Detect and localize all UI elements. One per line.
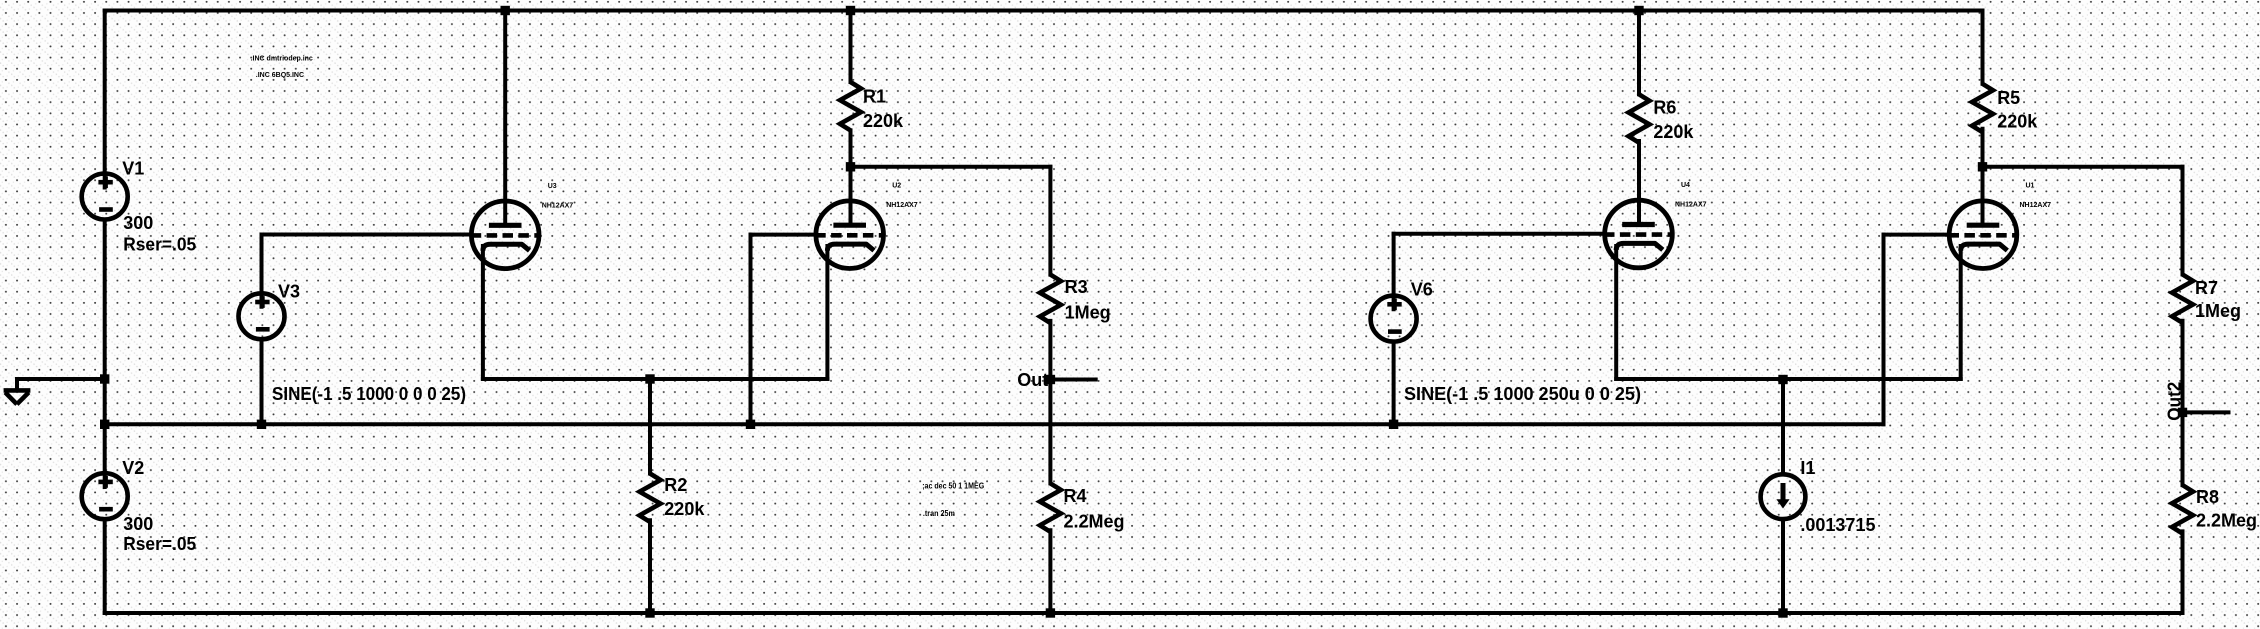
wire U3 cathode leg xyxy=(481,246,485,379)
junction cathodes / R2 xyxy=(645,374,654,383)
svg-text:SINE(-1 .5 1000 250u 0 0 25): SINE(-1 .5 1000 250u 0 0 25) xyxy=(1404,384,1641,404)
wire R4 to ground rail xyxy=(1048,530,1052,613)
svg-text:R4: R4 xyxy=(1064,486,1087,506)
svg-text:V6: V6 xyxy=(1411,280,1433,300)
wire rail to R6 xyxy=(1637,11,1641,95)
svg-text:U4: U4 xyxy=(1681,182,1690,189)
wire R6 to U4 plate xyxy=(1637,141,1641,225)
svg-text:R5: R5 xyxy=(1997,88,2020,108)
junction node Out xyxy=(1046,375,1055,384)
junction top rail / R1 xyxy=(846,6,855,15)
svg-text:NH12AX7: NH12AX7 xyxy=(2020,202,2052,209)
svg-text:220k: 220k xyxy=(863,111,904,131)
junction R1 / U2 plate / R3 xyxy=(846,162,855,171)
svg-text:R2: R2 xyxy=(664,475,687,495)
svg-text:Rser=.05: Rser=.05 xyxy=(123,234,196,254)
svg-text:300: 300 xyxy=(123,514,153,534)
wire V6 to U4 grid xyxy=(1394,232,1605,236)
wire U2 grid entry xyxy=(751,233,817,237)
wire plate node to R7 xyxy=(1983,165,2183,169)
wire U2 grid riser xyxy=(749,235,753,425)
triode U1 NH12AX7 xyxy=(1949,201,2017,269)
value label R7 1Meg xyxy=(2195,278,2241,321)
svg-text:V2: V2 xyxy=(122,458,144,478)
current source I1 xyxy=(1761,474,1806,519)
wire down to R3 xyxy=(1048,167,1052,275)
voltage source V3 xyxy=(239,293,285,339)
svg-text:2.2Meg: 2.2Meg xyxy=(2196,510,2257,530)
tube designator U1 xyxy=(2020,183,2052,210)
wire V3 top lead xyxy=(260,235,264,307)
wire R7 to R8 (Out2 node) xyxy=(2181,321,2185,485)
wire U1 grid entry xyxy=(1884,233,1950,237)
junction node Out2 xyxy=(2178,408,2187,417)
value label R8 2.2Meg xyxy=(2196,487,2257,530)
svg-text:;ac dec 50 1 1MEG: ;ac dec 50 1 1MEG xyxy=(922,481,984,490)
junction bus / left rail xyxy=(100,420,109,429)
wire Out2 stub xyxy=(2183,410,2229,414)
wire U4 cathode leg xyxy=(1614,246,1618,379)
triode U2 NH12AX7 xyxy=(815,201,883,269)
junction cathodes / I1 xyxy=(1778,375,1787,384)
svg-text:NH12AX7: NH12AX7 xyxy=(886,202,918,209)
junction bus / V3 xyxy=(257,420,266,429)
wire bottom ground rail xyxy=(105,611,2183,615)
svg-text:.INC dmtriodep.inc: .INC dmtriodep.inc xyxy=(251,56,313,63)
junction ground stub xyxy=(100,374,109,383)
svg-text:NH12AX7: NH12AX7 xyxy=(1675,202,1707,209)
wire left rail lower (V2 to bottom) xyxy=(103,519,107,613)
junction top rail / R6 xyxy=(1634,6,1643,15)
svg-text:U3: U3 xyxy=(548,183,557,190)
wire V6 top lead xyxy=(1392,234,1396,309)
value label R4 2.2Meg xyxy=(1064,486,1125,532)
resistor R5 xyxy=(1972,84,1993,132)
wire top supply rail xyxy=(105,9,1983,13)
svg-text:220k: 220k xyxy=(664,499,705,519)
wire Out stub xyxy=(1050,378,1095,382)
wire R8 to ground rail xyxy=(2181,531,2185,613)
svg-text:SINE(-1 .5 1000 0 0 0 25): SINE(-1 .5 1000 0 0 0 25) xyxy=(272,384,466,404)
resistor R3 xyxy=(1040,275,1061,323)
resistor R4 xyxy=(1040,483,1061,531)
svg-text:.0013715: .0013715 xyxy=(1800,515,1875,535)
wire down to R7 xyxy=(2181,167,2185,275)
wire rail to R1 xyxy=(849,11,853,83)
svg-text:2.2Meg: 2.2Meg xyxy=(1064,512,1125,532)
resistor R2 xyxy=(640,474,661,522)
value label R5 220k xyxy=(1997,88,2038,132)
svg-text:.tran 25m: .tran 25m xyxy=(923,509,955,518)
wire left rail middle (V1 to V2) xyxy=(103,220,107,488)
svg-text:R1: R1 xyxy=(863,86,886,106)
svg-text:U2: U2 xyxy=(892,183,901,190)
ground xyxy=(4,390,31,404)
svg-text:I1: I1 xyxy=(1800,458,1815,478)
svg-text:1Meg: 1Meg xyxy=(1065,302,1111,322)
wire cathode to I1 xyxy=(1781,380,1785,475)
wire ground drop xyxy=(15,379,19,389)
junction bottom rail / R2 xyxy=(645,608,654,617)
svg-text:.INC 6BQ5.INC: .INC 6BQ5.INC xyxy=(256,72,304,79)
junction bus / V6 xyxy=(1389,420,1398,429)
svg-text:220k: 220k xyxy=(1653,122,1694,142)
resistor R1 xyxy=(840,82,861,130)
wire U1 cathode leg xyxy=(1959,246,1963,379)
tube designator U2 xyxy=(886,183,918,210)
wire cathode rail right xyxy=(1616,377,1961,381)
svg-text:U1: U1 xyxy=(2026,183,2035,190)
value label R1 220k xyxy=(863,86,904,131)
wire I1 to ground rail xyxy=(1781,519,1785,613)
svg-text:300: 300 xyxy=(123,213,153,233)
wire plate node to R3 xyxy=(851,165,1051,169)
junction bottom rail / R4 xyxy=(1046,608,1055,617)
svg-text:V3: V3 xyxy=(278,282,300,302)
value label R6 220k xyxy=(1653,97,1694,142)
wire left rail upper (to V1) xyxy=(103,11,107,188)
resistor R7 xyxy=(2172,274,2193,322)
triode U4 NH12AX7 xyxy=(1604,200,1672,268)
junction bottom rail / I1 xyxy=(1778,608,1787,617)
tube designator U3 xyxy=(542,183,574,210)
triode U3 NH12AX7 xyxy=(471,201,539,269)
svg-text:NH12AX7: NH12AX7 xyxy=(542,202,574,209)
svg-text:Out2: Out2 xyxy=(2165,382,2185,421)
tube designator U4 xyxy=(1675,182,1707,209)
svg-text:Out: Out xyxy=(1017,370,1048,390)
junction R5 / U1 plate / R7 xyxy=(1978,162,1987,171)
wire V3 to U3 grid xyxy=(262,233,472,237)
value label R2 220k xyxy=(664,475,705,519)
wire R1 to U2 plate xyxy=(849,130,853,225)
value label R3 1Meg xyxy=(1065,277,1111,322)
junction bus / U2 grid xyxy=(746,420,755,429)
junction top rail / U3 plate xyxy=(501,6,510,15)
wire rail to R5 xyxy=(1981,11,1985,84)
wire ground stub xyxy=(17,377,105,381)
svg-text:R6: R6 xyxy=(1653,97,1676,117)
wire U1 grid riser xyxy=(1882,235,1886,425)
svg-text:220k: 220k xyxy=(1997,112,2038,132)
voltage source V1 xyxy=(82,174,128,220)
svg-text:R7: R7 xyxy=(2195,278,2218,298)
wire cathode rail left xyxy=(483,377,828,381)
wire V3 bottom lead xyxy=(260,339,264,424)
svg-text:R8: R8 xyxy=(2196,487,2219,507)
wire R2 to ground rail xyxy=(648,520,652,613)
resistor R8 xyxy=(2172,485,2193,533)
wire V6 bottom lead xyxy=(1392,342,1396,425)
wire R3 to R4 (Out node) xyxy=(1048,321,1052,484)
wire cathode to R2 xyxy=(648,379,652,474)
voltage source V2 xyxy=(82,473,128,519)
wire R5 to U1 plate xyxy=(1981,129,1985,226)
svg-text:R3: R3 xyxy=(1065,277,1088,297)
wire U2 cathode leg xyxy=(825,246,829,379)
svg-text:1Meg: 1Meg xyxy=(2195,301,2241,321)
wire U3 plate column xyxy=(503,11,507,226)
voltage source V6 xyxy=(1371,296,1417,342)
svg-text:Rser=.05: Rser=.05 xyxy=(123,534,196,554)
resistor R6 xyxy=(1629,94,1650,142)
wire signal bus xyxy=(105,422,1884,426)
svg-text:V1: V1 xyxy=(122,158,144,178)
